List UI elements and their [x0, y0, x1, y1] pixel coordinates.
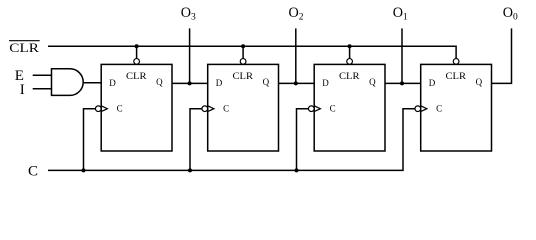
- wire U1 CLR stub: [136, 46, 138, 58]
- U1 clock edge triangle: [101, 106, 107, 112]
- junction CLR bus / U3 stub: [348, 44, 352, 48]
- net CLR label (active-low, overbar): [9, 40, 40, 55]
- svg-text:CLR: CLR: [9, 40, 39, 55]
- svg-text:0: 0: [513, 13, 518, 23]
- node O0 label: [503, 5, 518, 23]
- svg-text:Q: Q: [476, 77, 483, 87]
- junction CLR bus / U1 stub: [135, 44, 139, 48]
- flip-flop U1 body: [101, 64, 172, 151]
- svg-text:O: O: [289, 5, 299, 21]
- U4 clock inversion bubble: [415, 106, 421, 112]
- svg-text:C: C: [330, 104, 336, 114]
- junction O3 tap: [188, 81, 192, 85]
- wire U1 clock riser: [84, 109, 96, 171]
- wire G1 output to FF1 D: [83, 82, 101, 84]
- svg-text:C: C: [223, 104, 229, 114]
- svg-text:3: 3: [191, 13, 196, 23]
- svg-text:I: I: [20, 82, 25, 98]
- wire C bus (bottom horizontal, ends rising to U4 clock): [48, 109, 415, 171]
- wire Q3 to D4: [385, 82, 421, 84]
- wire I input: [33, 88, 52, 90]
- node O2 label: [289, 5, 304, 23]
- flip-flop U3 body: [314, 64, 385, 151]
- U2 clock inversion bubble: [202, 106, 208, 112]
- wire Q2 to D3: [279, 82, 315, 84]
- wire O2 output vertical: [295, 28, 297, 83]
- svg-text:D: D: [109, 78, 116, 88]
- U1 clock inversion bubble: [95, 106, 101, 112]
- flip-flop U2 body: [208, 64, 279, 151]
- junction CLR bus / U2 stub: [241, 44, 245, 48]
- wire E input: [33, 74, 52, 76]
- svg-text:O: O: [393, 5, 403, 21]
- svg-text:2: 2: [299, 13, 304, 23]
- svg-text:D: D: [216, 78, 223, 88]
- svg-text:D: D: [429, 78, 436, 88]
- junction C bus / U3 riser: [295, 168, 299, 172]
- wire O3 output vertical: [189, 28, 191, 83]
- svg-text:C: C: [436, 104, 442, 114]
- AND gate G1: [52, 69, 84, 96]
- wire U2 clock riser: [190, 109, 202, 171]
- U2 clock edge triangle: [208, 106, 214, 112]
- node O1 label: [393, 5, 408, 23]
- wire U3 CLR stub: [349, 46, 351, 58]
- wire O1 output vertical: [401, 28, 403, 83]
- svg-text:CLR: CLR: [233, 71, 254, 81]
- wire O0 connection (Q4 right then up): [492, 28, 512, 83]
- svg-text:C: C: [117, 104, 123, 114]
- svg-text:O: O: [181, 5, 191, 21]
- svg-text:Q: Q: [156, 77, 163, 87]
- U2 CLR inversion bubble: [240, 59, 246, 65]
- wire U3 clock riser: [297, 109, 309, 171]
- junction C bus / U2 riser: [188, 168, 192, 172]
- U1 CLR inversion bubble: [134, 59, 140, 65]
- junction O2 tap: [294, 81, 298, 85]
- svg-text:Q: Q: [263, 77, 270, 87]
- U4 clock edge triangle: [421, 106, 427, 112]
- flip-flop U4 body: [421, 64, 492, 151]
- svg-text:C: C: [28, 163, 38, 179]
- svg-text:1: 1: [403, 13, 408, 23]
- wire U2 CLR stub: [242, 46, 244, 58]
- svg-text:D: D: [322, 78, 329, 88]
- svg-text:O: O: [503, 5, 513, 21]
- U3 clock edge triangle: [314, 106, 320, 112]
- U4 CLR inversion bubble: [453, 59, 459, 65]
- node O3 label: [181, 5, 196, 23]
- U3 clock inversion bubble: [308, 106, 314, 112]
- svg-text:CLR: CLR: [126, 71, 147, 81]
- wire CLR bus (top horizontal, ends turning down to FF4): [48, 46, 456, 58]
- junction C bus / U1 riser: [82, 168, 86, 172]
- junction O1 tap: [400, 81, 404, 85]
- svg-text:CLR: CLR: [339, 71, 360, 81]
- svg-text:CLR: CLR: [446, 71, 467, 81]
- wire Q1 to D2: [172, 82, 208, 84]
- U3 CLR inversion bubble: [347, 59, 353, 65]
- svg-text:Q: Q: [369, 77, 376, 87]
